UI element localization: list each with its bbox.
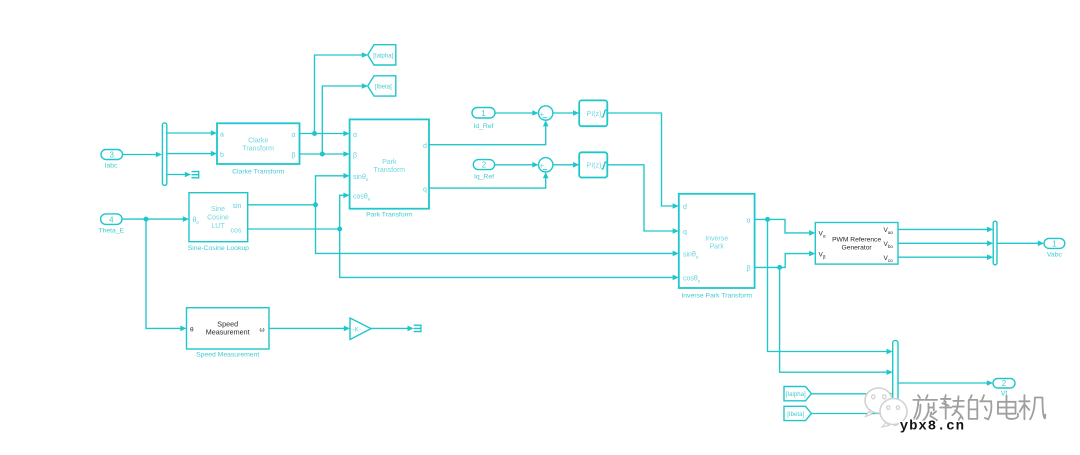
wire Iabc to demux [123, 152, 163, 158]
svg-text:Inverse Park Transform: Inverse Park Transform [681, 293, 752, 300]
svg-text:Cosine: Cosine [207, 215, 229, 222]
svg-text:Id_Ref: Id_Ref [473, 123, 493, 130]
Inverse Park block [679, 194, 755, 300]
wire demux out3 to terminator [167, 172, 191, 178]
from tag Ialpha [784, 387, 811, 401]
input port 4 Theta_E [98, 214, 124, 234]
wire PI2 to Inverse Park q [607, 165, 679, 234]
wire demux out2 to Clarke b [167, 151, 217, 157]
svg-text:Speed Measurement: Speed Measurement [196, 352, 259, 359]
wire Clarke alpha to Park alpha [300, 131, 350, 137]
svg-text:PI(z): PI(z) [587, 162, 602, 170]
svg-text:3: 3 [109, 151, 114, 160]
svg-text:LUT: LUT [211, 223, 225, 230]
wire LUT sin to junction [248, 204, 316, 206]
input port 1 Id_Ref [472, 108, 495, 130]
wire Iq_Ref to sum2 [495, 162, 539, 168]
svg-text:cos: cos [231, 227, 242, 234]
wire from Ibeta tag to mux2 [812, 411, 893, 417]
junction Vbeta [777, 265, 782, 270]
wire mux1 to Vabc port [997, 241, 1044, 247]
Park Transform block [350, 119, 429, 218]
wire Inverse Park beta to PWM Vbeta [755, 251, 816, 268]
svg-text:Vabc: Vabc [1047, 251, 1063, 258]
svg-text:θ: θ [190, 327, 194, 334]
svg-text:Measurement: Measurement [206, 327, 250, 336]
from tag Ibeta [784, 406, 811, 420]
wire branch beta up to goto Ibeta [322, 83, 368, 154]
goto tag Ialpha [368, 45, 396, 65]
svg-text:1: 1 [1052, 239, 1057, 248]
svg-text:2: 2 [1002, 379, 1007, 388]
svg-text:[Ialpha]: [Ialpha] [373, 52, 393, 59]
svg-text:Park Transform: Park Transform [366, 212, 413, 219]
svg-text:d: d [423, 143, 427, 150]
svg-text:a: a [220, 132, 224, 139]
wire branch alpha down to mux2 [768, 219, 893, 354]
svg-text:Clarke: Clarke [248, 137, 268, 144]
svg-text:[Ibeta]: [Ibeta] [375, 83, 392, 90]
output port 2 Vt [993, 379, 1015, 389]
Speed Measurement block [187, 308, 270, 359]
svg-text:d: d [683, 204, 687, 211]
svg-text:α: α [747, 218, 751, 225]
junction Theta_E [144, 217, 149, 222]
svg-text:Iabc: Iabc [105, 162, 118, 169]
wire cos up to Park cos [340, 193, 350, 230]
svg-text:Transform: Transform [373, 167, 405, 174]
svg-text:1: 1 [481, 109, 486, 118]
svg-text:PWM Reference: PWM Reference [832, 236, 881, 243]
svg-text:Generator: Generator [842, 244, 873, 251]
svg-text:q: q [683, 229, 687, 236]
wire branch beta down to mux2 [780, 267, 893, 375]
terminator T1 [192, 171, 199, 179]
svg-text:2: 2 [482, 161, 487, 170]
wire PI1 to Inverse Park d [607, 113, 679, 209]
sum S2 [539, 158, 553, 172]
svg-text:+: + [540, 161, 545, 170]
svg-text:Transform: Transform [242, 145, 274, 152]
wire Inverse Park alpha to PWM Valpha [755, 219, 816, 235]
svg-text:Sine-Cosine Lookup: Sine-Cosine Lookup [188, 245, 249, 252]
svg-text:sin: sin [233, 203, 242, 210]
wire sum2 to PI2 [553, 162, 579, 168]
svg-text:-K-: -K- [353, 327, 362, 334]
output port 1 Vabc [1044, 238, 1065, 258]
svg-text:Iq_Ref: Iq_Ref [474, 173, 494, 180]
svg-text:Sine: Sine [211, 206, 225, 213]
wire Park d feedback to sum1 [429, 120, 549, 145]
wire PWM Vbo to mux1 [898, 241, 993, 247]
input port 3 Iabc [101, 150, 123, 170]
svg-text:Inverse: Inverse [705, 236, 728, 243]
mux M2 [893, 340, 898, 424]
watermark logo wechat bubbles [865, 388, 907, 427]
wire gain to terminator2 [371, 326, 414, 332]
svg-text:β: β [747, 266, 751, 273]
input port 2 Iq_Ref [473, 160, 494, 181]
svg-text:b: b [220, 152, 224, 159]
wire cos down to Inverse Park cos [340, 229, 679, 280]
wire Id_Ref to sum1 [495, 110, 539, 116]
demux D1 [162, 123, 166, 185]
svg-text:Park: Park [382, 159, 397, 166]
wire sin down to Inverse Park sin [316, 205, 679, 256]
wire branch alpha up to goto Ialpha [315, 52, 369, 133]
svg-text:Park: Park [709, 244, 724, 251]
svg-text:PI(z): PI(z) [587, 110, 602, 118]
wire LUT cos to junction [248, 228, 340, 230]
Sine-Cosine Lookup block [188, 193, 249, 252]
wire PWM Vco to mux1 [898, 254, 993, 260]
svg-text:q: q [423, 187, 427, 194]
wire Theta_E to LUT [123, 216, 190, 222]
junction sin [313, 202, 318, 207]
terminator T2 [414, 324, 421, 332]
junction cos [337, 227, 342, 232]
svg-text:α: α [353, 132, 357, 139]
gain K1 [350, 318, 371, 340]
wire Park q feedback to sum2 [429, 172, 549, 188]
svg-text:[Ibeta]: [Ibeta] [787, 411, 804, 418]
svg-text:[Ialpha]: [Ialpha] [786, 391, 806, 398]
sum S1 [539, 106, 553, 120]
wire Clarke beta to Park beta [300, 151, 350, 157]
svg-text:ω: ω [260, 327, 265, 334]
wire sum1 to PI1 [553, 110, 579, 116]
svg-text:Theta_E: Theta_E [98, 227, 124, 234]
wire sin up to Park sin [316, 173, 350, 205]
svg-text:α: α [292, 132, 296, 139]
junction alpha [312, 131, 317, 136]
wire PWM Vao to mux1 [898, 227, 993, 233]
goto tag Ibeta [368, 76, 396, 96]
svg-text:+: + [540, 109, 545, 118]
wire branch Theta_E down to Speed Measurement [146, 219, 187, 331]
wire mux2 to Vt port [898, 380, 993, 386]
PI controller PI2 [579, 152, 607, 177]
wire demux out1 to Clarke a [167, 130, 217, 136]
PWM Reference Generator block [815, 223, 898, 265]
svg-text:4: 4 [109, 215, 114, 224]
svg-text:Vt: Vt [1001, 391, 1008, 398]
svg-text:β: β [292, 153, 296, 160]
wire from Ialpha tag to mux2 [812, 391, 893, 397]
wire Speed Measurement to gain [269, 326, 350, 332]
Clarke Transform block [217, 123, 300, 175]
svg-text:Clarke Transform: Clarke Transform [232, 169, 284, 176]
svg-text:ybx8.cn: ybx8.cn [900, 419, 965, 435]
PI controller PI1 [579, 100, 607, 126]
mux M1 [993, 221, 997, 265]
junction Valpha [765, 217, 770, 222]
svg-text:β: β [353, 153, 357, 160]
junction beta [320, 152, 325, 157]
